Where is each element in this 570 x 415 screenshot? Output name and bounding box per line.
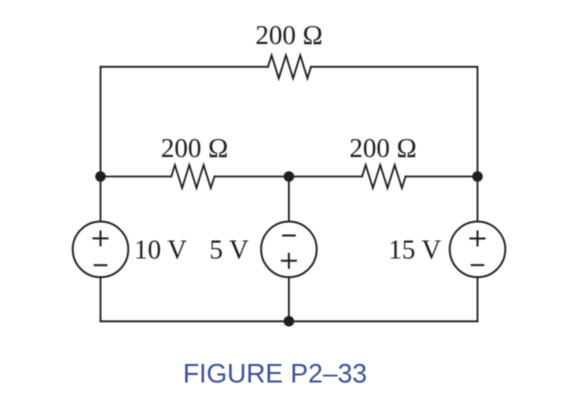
voltage source V1 10V circle [73,222,129,278]
voltage source V3 15V circle [450,222,506,278]
wire top right segment [311,67,478,177]
resistor R1 200ohm top [268,55,311,78]
svg-text:10 V: 10 V [134,235,187,265]
wire middle right [406,176,478,178]
wire left source top lead [100,177,102,222]
voltage source V2 5V circle [261,222,317,278]
resistor R2 200ohm middle-left [171,165,214,188]
wire middle left [101,176,172,178]
node C right junction dot [472,171,483,182]
V2 plus sign [281,253,297,269]
wire left source bottom lead [100,277,102,321]
V2 minus sign [282,235,296,237]
V3 minus sign [471,264,485,266]
resistor R3 200ohm middle-right [362,165,406,188]
svg-text:15 V: 15 V [388,235,441,265]
node B middle junction dot [284,171,295,182]
svg-text:200 Ω: 200 Ω [161,133,228,163]
wire top left segment [101,67,269,177]
V1 minus sign [94,264,108,266]
svg-text:200 Ω: 200 Ω [255,20,322,50]
V1 plus sign [93,230,109,246]
node A left junction dot [95,171,106,182]
V3 plus sign [470,231,486,247]
node D bottom junction dot [284,316,295,327]
wire middle center [215,176,363,178]
svg-text:200 Ω: 200 Ω [349,133,416,163]
wire bottom [101,320,478,322]
wire right source top lead [477,177,479,222]
svg-text:FIGURE P2–33: FIGURE P2–33 [183,359,367,389]
wire middle source top lead [288,177,290,222]
wire middle source bottom lead [288,277,290,321]
svg-text:5 V: 5 V [209,235,249,265]
wire right source bottom lead [477,277,479,321]
